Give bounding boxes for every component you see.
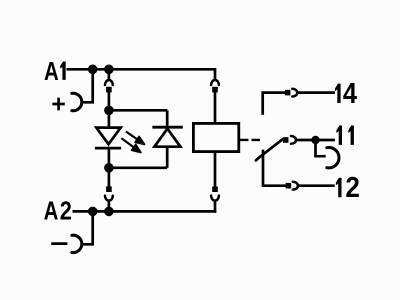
plug-in connector pin (11) (283, 137, 289, 143)
terminal label 12 (336, 171, 360, 204)
svg-text:A: A (44, 57, 59, 86)
wire to terminal 11 (296, 139, 335, 142)
junction dot A1-plus (88, 65, 98, 75)
plug-in connector pin (14) (285, 90, 291, 96)
wire connector to coil top (214, 92, 217, 123)
plug-in connector pin (12) (286, 183, 292, 189)
cage clamp terminal (minus) (72, 235, 82, 252)
plug-in connector socket (coil bottom) (211, 196, 219, 201)
plug-in connector socket (12) (293, 182, 298, 190)
wire loop bottom (109, 166, 167, 169)
wire connector to LED node (108, 92, 111, 110)
wire contact 14 stub (263, 93, 286, 115)
junction dot LED bottom node (104, 163, 114, 173)
wire A1 rail (67, 68, 216, 71)
minus sign (51, 242, 67, 245)
plug-in connector pin (LED bottom) (106, 186, 112, 192)
wire diode branch down (166, 110, 169, 126)
wire contact 12 stub (263, 150, 286, 186)
plug-in connector socket (coil top) (211, 80, 219, 85)
plug-in connector socket (14) (292, 89, 297, 97)
svg-text:4: 4 (343, 76, 357, 109)
LED light arrow 1 (126, 131, 145, 144)
cage clamp terminal (plus) (72, 93, 82, 110)
svg-text:A: A (44, 196, 59, 225)
wire diode anode down (166, 147, 169, 168)
wire A1 rail corner down to coil branch (214, 68, 217, 81)
LED cathode bar (95, 147, 121, 150)
svg-text:2: 2 (345, 171, 360, 204)
wire socket to A2 rail (LED) (108, 201, 111, 212)
junction dot A1-led (104, 65, 114, 75)
wire minus branch (83, 211, 93, 244)
diode triangle (154, 129, 180, 147)
junction dot A2-minus (88, 207, 98, 217)
plug-in connector pin (coil bottom) (212, 186, 218, 192)
wire to terminal 14 (297, 91, 335, 94)
terminal label 14 (335, 76, 357, 109)
wire 11 to clamp (316, 140, 326, 156)
junction dot LED top node (104, 106, 114, 116)
svg-text:2: 2 (60, 197, 72, 226)
plug-in connector pin (LED top) (106, 87, 112, 93)
terminal label 11 (336, 125, 354, 144)
wire plus branch (83, 69, 93, 102)
plug-in connector pin (coil top) (212, 87, 218, 93)
terminal label A1 (44, 57, 66, 86)
junction dot 11 (311, 136, 319, 144)
wire loop top (109, 109, 167, 112)
wire coil bottom to connector (214, 153, 217, 187)
cage clamp terminal (11) (327, 148, 339, 168)
changeover contact armature (256, 139, 283, 161)
dashed actuation link coil to contact (240, 139, 262, 141)
plug-in connector socket (LED top) (105, 80, 113, 85)
LED triangle (96, 128, 120, 145)
diode cathode bar (152, 126, 182, 129)
terminal label A2 (44, 196, 72, 226)
wire LED cathode down (108, 148, 111, 168)
relay coil K1 (193, 123, 238, 151)
wire LED bottom to connector (108, 168, 111, 187)
junction dot A2-led (104, 207, 114, 217)
wire to terminal 12 (298, 184, 335, 187)
plug-in connector socket (11) (291, 136, 296, 144)
wire LED branch from A1 (108, 69, 111, 80)
plug-in connector socket (LED bottom) (105, 196, 113, 201)
LED light arrow 2 (121, 138, 140, 152)
wire socket to A2 rail (214, 201, 217, 213)
plus sign (52, 98, 64, 111)
wire A2 rail (73, 210, 217, 213)
wire LED anode (108, 110, 111, 127)
